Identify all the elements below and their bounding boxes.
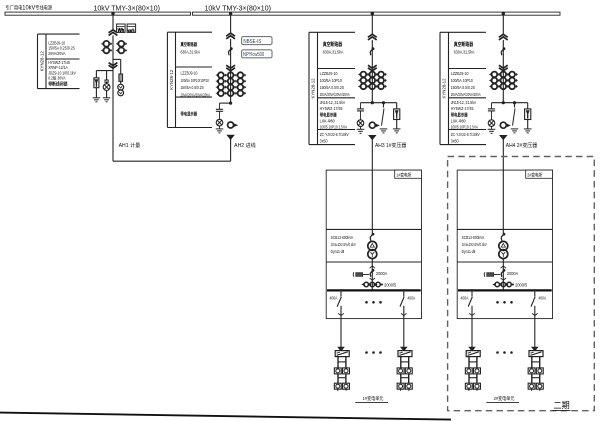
svg-text:XRNP-12/1A: XRNP-12/1A [48, 66, 68, 70]
disconnector (drawout contact, upper) AH3 [368, 34, 377, 37]
dots (more feeders) 1#变电所 [365, 301, 368, 304]
dots (more busways) 1#变电所 [365, 351, 368, 354]
node: bus2 tap for AH2 [229, 12, 232, 15]
svg-text:20VA/20VA: 20VA/20VA [48, 52, 66, 56]
earthing sensor circle AH2 [228, 122, 234, 128]
svg-text:100/5 10P10 2.5VA: 100/5 10P10 2.5VA [451, 125, 479, 130]
fuse (PT branch) [105, 80, 108, 83]
ground (arrester) [93, 97, 101, 99]
svg-text:ZC-YJV22-8.7/10kV-: ZC-YJV22-8.7/10kV- [451, 133, 481, 138]
LV feeder at x=534.8 2#变电所 [534, 289, 537, 292]
CT row 1 AH2 (3 phases) [218, 72, 224, 78]
svg-text:NPYlcw500: NPYlcw500 [243, 52, 265, 57]
svg-text:LZZBJ9-10: LZZBJ9-10 [451, 70, 470, 75]
wire [396, 120, 398, 129]
substation name cartouche 2#变电所 [526, 170, 553, 178]
wire: left measuring branch [96, 70, 113, 72]
svg-text:100/5A 10P10: 100/5A 10P10 [320, 77, 343, 82]
svg-text:10kV TMY-3×(80×10): 10kV TMY-3×(80×10) [205, 3, 271, 12]
CT row 3 AH2 (3 phases) [218, 84, 224, 90]
svg-text:JDZ9-10 10/0.1kV: JDZ9-10 10/0.1kV [48, 71, 76, 75]
LV feeder at x=341.0 1#变电所 [340, 289, 343, 292]
wire accessory branch AH4 [492, 102, 528, 104]
wire AH1 main down [112, 71, 114, 162]
CT row 2 AH4 (3 phases) [492, 78, 498, 84]
svg-text:带电显示器: 带电显示器 [451, 111, 469, 118]
CT row 1 AH4 (3 phases) [492, 72, 498, 78]
svg-text:3x50: 3x50 [320, 138, 329, 143]
svg-text:10.5±2X2.5%/0.4kV: 10.5±2X2.5%/0.4kV [462, 243, 488, 248]
drawout contact upper (LV breaker) 2#变电所 [501, 266, 507, 268]
wire cable down to substation [371, 140, 373, 171]
svg-text:1#变电单元: 1#变电单元 [363, 395, 384, 403]
svg-text:2000A: 2000A [507, 271, 518, 276]
svg-text:KYN28-12: KYN28-12 [310, 78, 315, 99]
svg-text:JN15-12, 31.5kA: JN15-12, 31.5kA [320, 99, 346, 105]
CT row 2 AH3 (3 phases) [361, 78, 367, 84]
svg-text:2000/5: 2000/5 [515, 282, 528, 287]
earthing sensor circle AH4 [500, 122, 506, 128]
bus 2 : 10kV distribution busbar [193, 12, 561, 15]
CT row 1 AH3 (3 phases) [361, 72, 367, 78]
svg-text:Dyn11-dⅡ: Dyn11-dⅡ [331, 250, 345, 254]
meter Wh (active energy meter box) [117, 24, 126, 32]
svg-text:150/5A 0.5/0.2S: 150/5A 0.5/0.2S [181, 86, 205, 90]
svg-text:Wh: Wh [118, 27, 125, 34]
wire [106, 91, 108, 98]
svg-text:AH3 1#变压器: AH3 1#变压器 [375, 141, 407, 149]
busway rails [337, 357, 339, 390]
wire [95, 71, 97, 78]
svg-text:JN15-12, 31.5kA: JN15-12, 31.5kA [451, 99, 477, 105]
svg-text:KYN28-12: KYN28-12 [169, 69, 174, 90]
meter varh (reactive energy meter box) [127, 24, 136, 32]
feeder cable below box [403, 319, 405, 348]
earthing switch ES AH3 [383, 103, 385, 108]
ground (PT) [103, 97, 111, 99]
feeder drawout contact [338, 313, 344, 315]
LV main breaker 2000A 1#变电所 [372, 269, 375, 272]
underline [355, 402, 388, 404]
relay label box WBSE-IS [242, 37, 272, 45]
node [382, 101, 385, 104]
svg-text:引厂用电10kV专线电源: 引厂用电10kV专线电源 [5, 4, 52, 12]
svg-text:630A,31.5kA: 630A,31.5kA [454, 49, 475, 54]
node: accessory branch tap AH3 [371, 101, 374, 104]
wire [95, 88, 97, 98]
busway feeder unit at x=342.2 1#变电所 [338, 347, 344, 351]
transformer HV protection link 1#变电所 [372, 233, 375, 236]
LV busbar 0.4kV 1#变电所 [327, 289, 421, 291]
disconnector (drawout contact, lower) AH1 [109, 63, 118, 66]
underline [486, 402, 519, 404]
disconnector (drawout contact, upper) AH2 [226, 33, 235, 36]
disconnector (drawout contact, lower) AH2 [226, 65, 235, 68]
wire AH3 drop from bus2 [371, 14, 373, 34]
bus 1 : 10kV incoming busbar [5, 12, 191, 15]
svg-text:带断线闭锁: 带断线闭锁 [48, 80, 68, 86]
substation outline box 1#变电所 [326, 170, 421, 319]
svg-text:AH4 2#变压器: AH4 2#变压器 [506, 141, 538, 149]
disconnector (drawout contact, lower) AH4 [499, 65, 508, 68]
live-line display device (capacitor + lamp + ground) AH2 [219, 103, 221, 109]
wire AH2 drop from bus2 [230, 14, 232, 33]
busway feeder unit at x=405.0 1#变电所 [401, 347, 407, 351]
disconnector (drawout contact, upper) AH1 [109, 30, 118, 33]
wire branch to live display [220, 102, 231, 104]
PT voltage transformer (two windings) [118, 84, 124, 90]
CT row 3 AH4 (3 phases) [492, 84, 498, 90]
svg-text:630A,31.5kA: 630A,31.5kA [181, 50, 201, 54]
circuit breaker QF (vacuum) AH4 [503, 47, 506, 50]
drawout contact upper (LV breaker) 1#变电所 [370, 266, 376, 268]
svg-text:真空断路器: 真空断路器 [180, 40, 198, 47]
svg-text:二期: 二期 [554, 400, 570, 411]
busway plug-in boxes row y=383.2 [465, 383, 472, 389]
substation name cartouche 1#变电所 [395, 170, 422, 178]
cabinet table (KYN28-12) at x=440.0 [440, 31, 486, 33]
feeder cable below box [471, 319, 473, 348]
svg-text:2000/5: 2000/5 [384, 282, 397, 287]
busway rails [531, 357, 533, 390]
svg-text:varh: varh [128, 27, 135, 33]
busway plug-in boxes row y=367.9 [334, 368, 341, 374]
substation outline box 2#变电所 [457, 170, 552, 319]
svg-text:AH2 进线: AH2 进线 [234, 141, 256, 149]
svg-text:20VA/20VA/20VA/20VA: 20VA/20VA/20VA/20VA [320, 92, 350, 97]
wire HV into transformer [502, 170, 504, 233]
svg-text:2#变电所: 2#变电所 [527, 171, 542, 178]
cabinet table AH2 (KYN28-12) [167, 31, 212, 33]
live-line display device (capacitor + lamp + ground) AH4 [491, 103, 493, 109]
CT row 2 AH2 (3 phases) [218, 78, 224, 84]
svg-text:SCB13-800kVA: SCB13-800kVA [331, 236, 354, 240]
divider below transformer bay [326, 261, 421, 263]
wire [120, 81, 122, 84]
busway plug-in boxes row y=367.9 [397, 368, 404, 374]
svg-text:400A: 400A [538, 296, 546, 300]
svg-text:150/5A 0.5/0.2S: 150/5A 0.5/0.2S [320, 84, 345, 90]
wire [106, 71, 108, 80]
relay label box NPYlcw500 [242, 50, 272, 58]
wire [112, 35, 114, 70]
dots (more busways) 2#变电所 [496, 351, 499, 354]
surge arrester AH4 [527, 103, 529, 109]
busway feeder unit at x=536.0 2#变电所 [532, 347, 538, 351]
busway plug-in boxes row y=367.9 [465, 368, 472, 374]
svg-text:HY5WZ-17/45: HY5WZ-17/45 [48, 61, 70, 65]
wire: cable rise to AH2 [230, 139, 232, 161]
wire AH1 drop from bus1 [112, 14, 114, 30]
node: bus2 tap for AH4 [502, 12, 505, 15]
busway rails [468, 357, 470, 390]
ground (arrester) [393, 128, 401, 130]
LV feeder at x=472.0 2#变电所 [471, 289, 474, 292]
surge arrester FY1 [94, 78, 99, 88]
earthing switch ES AH4 [514, 103, 516, 108]
wire cable down to substation [502, 140, 504, 171]
circuit breaker QF (vacuum) AH2 [230, 47, 233, 50]
wire HV into transformer [371, 170, 373, 233]
feeder drawout contact [532, 313, 538, 315]
earthing sensor circle AH3 [369, 122, 375, 128]
feeder drawout contact [401, 313, 407, 315]
svg-text:LZZBJ9-10: LZZBJ9-10 [181, 71, 198, 75]
svg-text:真空断路器: 真空断路器 [454, 41, 474, 49]
drawout contact lower (LV breaker) 2#变电所 [501, 278, 507, 280]
surge arrester AH3 [396, 103, 398, 109]
svg-text:LXK-Φ80: LXK-Φ80 [320, 118, 336, 123]
svg-text:100/5 10P10 2.5VA: 100/5 10P10 2.5VA [320, 125, 348, 130]
svg-text:0.2级 30VA: 0.2级 30VA [48, 75, 66, 80]
cable arrow AH4 [500, 136, 506, 140]
busway feeder unit at x=473.2 2#变电所 [469, 347, 475, 351]
wire [230, 39, 232, 103]
svg-text:LZZBJ9-10: LZZBJ9-10 [320, 70, 339, 75]
transformer T (1#变电所) circles D/Y [368, 241, 377, 250]
svg-text:400A: 400A [330, 296, 338, 300]
live-line display device (capacitor + lamp + ground) AH3 [360, 103, 362, 109]
svg-text:150/5A 0.5/0.2S: 150/5A 0.5/0.2S [451, 84, 476, 90]
svg-text:630A,31.5kA: 630A,31.5kA [323, 49, 344, 54]
svg-text:带电显示器: 带电显示器 [181, 110, 198, 117]
wire LV from transformer [502, 259, 504, 291]
fuse: PT primary fuse [119, 74, 123, 81]
disconnector (drawout contact, lower) AH3 [368, 65, 377, 68]
feeder cable below box [534, 319, 536, 348]
svg-text:150/5A 0.2S/0.2S: 150/5A 0.2S/0.2S [48, 46, 75, 50]
svg-text:HY5WZ-17/45: HY5WZ-17/45 [320, 106, 344, 111]
busway plug-in boxes row y=383.2 [528, 383, 535, 389]
wire LV from transformer [371, 259, 373, 291]
svg-text:20VA/20VA/20VA/20VA: 20VA/20VA/20VA/20VA [451, 92, 481, 97]
ground (earthing switch) [511, 128, 519, 130]
feeder cable below box [340, 319, 342, 348]
busway plug-in boxes row y=383.2 [397, 383, 404, 389]
svg-text:100/5A 10P10/10P10: 100/5A 10P10/10P10 [181, 78, 209, 83]
wire: AH1 to AH2 cable loop bottom [113, 160, 231, 162]
feeder drawout contact [469, 313, 475, 315]
wire [502, 40, 504, 103]
cable arrow AH3 [369, 136, 375, 140]
svg-text:KYN28-12: KYN28-12 [441, 78, 446, 99]
svg-text:400A: 400A [407, 296, 415, 300]
node: bus1 tap for AH1 [111, 12, 114, 15]
svg-text:HY5WZ-17/45: HY5WZ-17/45 [451, 106, 475, 111]
LV feeder at x=403.8 1#变电所 [403, 289, 406, 292]
svg-text:NBSE-IS: NBSE-IS [243, 39, 261, 45]
svg-text:100/5A 10P10: 100/5A 10P10 [451, 77, 474, 82]
drawing frame bottom border [0, 413, 451, 420]
divider below transformer bay [457, 261, 552, 263]
svg-text:2000A: 2000A [376, 271, 387, 276]
svg-text:400A: 400A [461, 296, 469, 300]
busway plug-in boxes row y=367.9 [528, 368, 535, 374]
LV CT group 2000/5 2#变电所 [495, 282, 499, 286]
svg-text:20VA/20VA/20VA/20VA: 20VA/20VA/20VA/20VA [181, 93, 211, 98]
drawout contact lower (LV breaker) 1#变电所 [370, 278, 376, 280]
divider above transformer bay [457, 228, 552, 230]
LV busbar 0.4kV 2#变电所 [458, 289, 552, 291]
wire accessory branch AH3 [361, 102, 397, 104]
transformer T (2#变电所) circles D/Y [499, 241, 508, 250]
svg-text:Dyn11-dⅡ: Dyn11-dⅡ [462, 250, 476, 254]
svg-text:3x50: 3x50 [451, 138, 460, 143]
CT metering current transformer (upper pair) [104, 41, 110, 47]
LV main breaker 2000A 2#变电所 [503, 269, 506, 272]
LV CT group 2000/5 1#变电所 [364, 282, 368, 286]
PT voltage transformer (single) [103, 84, 110, 91]
wire AH4 drop from bus2 [502, 14, 504, 34]
shunt/operator attachment 1#变电所 [352, 272, 355, 277]
svg-text:带电显示器: 带电显示器 [320, 111, 338, 118]
wire: branch to PT fuse (right) [113, 58, 121, 60]
svg-text:1#变电所: 1#变电所 [396, 171, 411, 178]
svg-text:10kV TMY-3×(80×10): 10kV TMY-3×(80×10) [94, 3, 160, 12]
dots (more feeders) 2#变电所 [496, 301, 499, 304]
svg-text:LXK-Φ80: LXK-Φ80 [451, 118, 467, 123]
ground (earthing switch) [380, 128, 388, 130]
svg-text:2#变电单元: 2#变电单元 [494, 395, 515, 403]
transformer HV protection link 2#变电所 [503, 233, 506, 236]
wire [527, 120, 529, 129]
svg-text:LZZBJ9-10: LZZBJ9-10 [48, 41, 65, 45]
cable arrow into AH2 [227, 135, 233, 139]
ground (arrester) [524, 128, 532, 130]
svg-text:KYN28-12: KYN28-12 [39, 51, 44, 72]
node: bus2 tap for AH3 [371, 12, 374, 15]
busway rails [400, 357, 402, 390]
cabinet table AH1 (KYN28-12) [38, 33, 80, 35]
cabinet table (KYN28-12) at x=309.0 [309, 31, 355, 33]
wire [371, 40, 373, 103]
busway plug-in boxes row y=383.2 [334, 383, 341, 389]
svg-text:真空断路器: 真空断路器 [323, 41, 343, 49]
CT row 3 AH3 (3 phases) [361, 84, 367, 90]
disconnector (drawout contact, upper) AH4 [499, 34, 508, 37]
divider above transformer bay [326, 228, 421, 230]
svg-text:10.5±2X2.5%/0.4kV: 10.5±2X2.5%/0.4kV [331, 243, 357, 248]
node [513, 101, 516, 104]
node: accessory branch tap AH4 [502, 101, 505, 104]
CT row 4 AH2 (3 phases) [218, 91, 224, 97]
CT metering current transformer (lower pair) [104, 48, 110, 54]
circuit breaker QF (vacuum) AH3 [372, 47, 375, 50]
svg-text:ZC-YJV22-8.7/10kV-: ZC-YJV22-8.7/10kV- [320, 133, 350, 138]
shunt/operator attachment 2#变电所 [483, 272, 486, 277]
svg-text:SCB13-800kVA: SCB13-800kVA [462, 236, 485, 240]
svg-text:AH1 计量: AH1 计量 [119, 141, 141, 149]
phase 2 dashed boundary 二期 [448, 157, 595, 411]
node: live-display tap AH2 [229, 102, 232, 105]
wire [106, 82, 108, 83]
